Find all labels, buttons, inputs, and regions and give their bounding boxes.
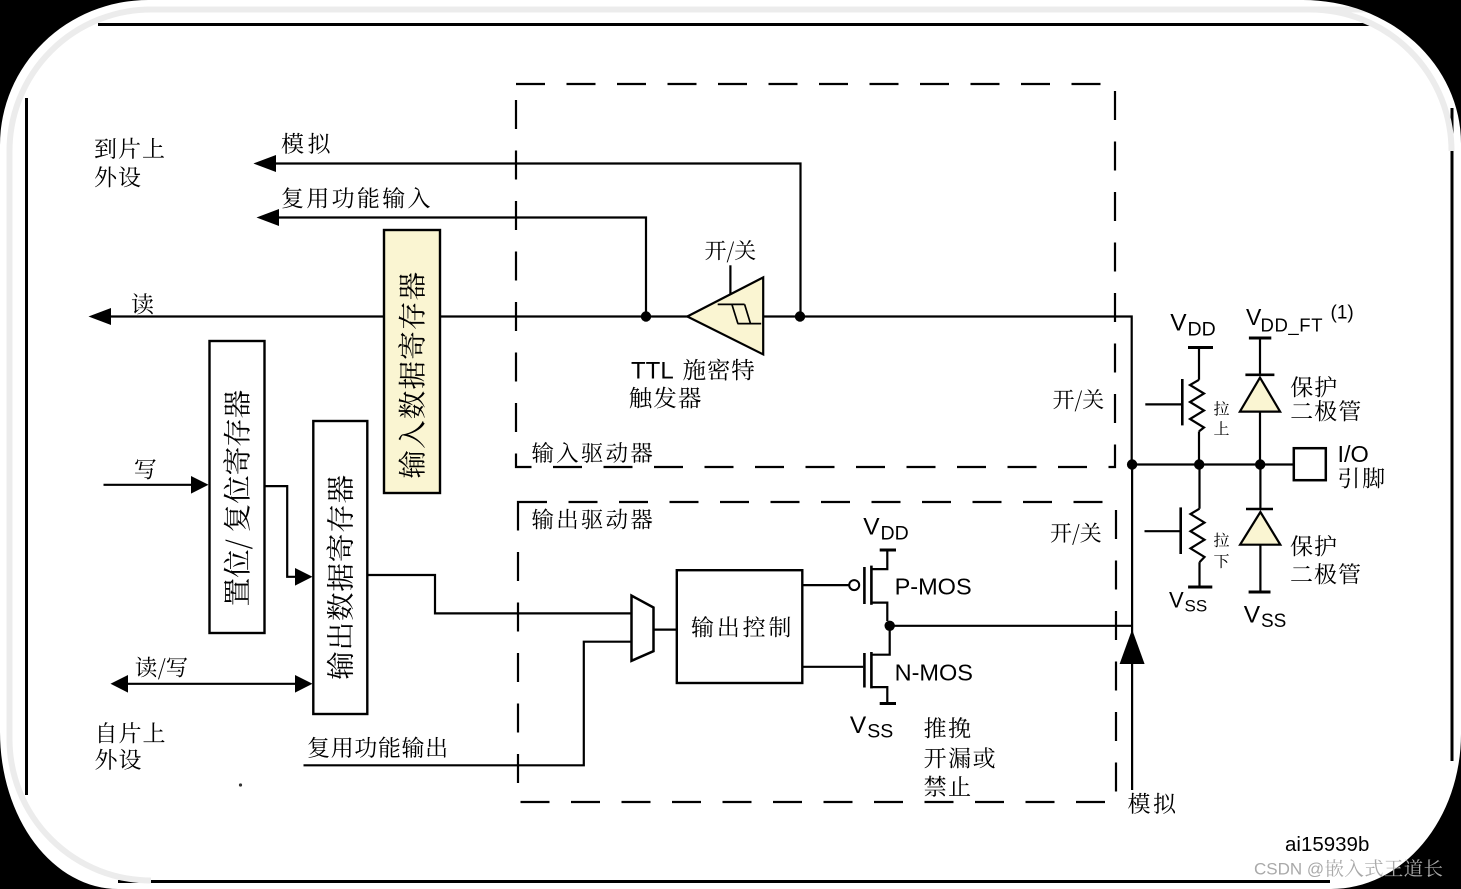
- wire: write input: [104, 484, 196, 486]
- arrowhead: write into bit set/reset register: [191, 476, 209, 494]
- svg-text:V: V: [863, 514, 880, 541]
- label: 模拟 (analog) bottom: [1128, 793, 1175, 814]
- label: 推挽 开漏或 禁止 (push-pull, open-drain or disabled): [924, 717, 970, 738]
- mux trapezoid selecting output data / AF output: [632, 596, 654, 661]
- resistor: pull-up with switch: [1188, 346, 1213, 349]
- wire: alternate function output net: [304, 642, 633, 766]
- node: push-pull output junction: [885, 621, 895, 631]
- op-amp style buffer: TTL Schmitt trigger: [687, 277, 763, 354]
- stray dot mark: [239, 783, 242, 786]
- wire: output data register to output mux: [366, 575, 632, 613]
- wire: alternate function input net: [265, 218, 646, 317]
- svg-text:(1): (1): [1331, 303, 1354, 324]
- label: 写 (write): [135, 459, 156, 479]
- label: 读 (read): [132, 293, 153, 314]
- svg-text:V: V: [1170, 310, 1187, 337]
- arrowhead: read/write (right, into output data register): [295, 675, 313, 693]
- watermark: [1254, 859, 1442, 878]
- label: 自片上外设 (from on-chip peripherals): [99, 722, 164, 743]
- svg-text:N-MOS: N-MOS: [895, 660, 973, 686]
- wire: read data line from I/O to read bus: [97, 317, 1132, 466]
- label: 拉上 (pull-up): [1214, 401, 1229, 416]
- transistor: P-MOS: [880, 549, 896, 552]
- svg-text:TTL: TTL: [631, 358, 674, 385]
- label: 开/关 (on/off) above trigger: [705, 240, 755, 262]
- node: analog line junction: [795, 311, 805, 321]
- arrowhead: analog (up): [1120, 630, 1145, 665]
- wire: output stage to I/O pin column: [890, 625, 1132, 627]
- svg-text:SS: SS: [1261, 611, 1286, 632]
- svg-text:I/O: I/O: [1338, 441, 1369, 467]
- label: 读/写 (read/write): [136, 657, 188, 680]
- svg-text:SS: SS: [867, 721, 893, 743]
- arrowhead: read/write (left): [111, 675, 129, 693]
- svg-text:V: V: [1244, 602, 1261, 629]
- svg-text:ai15939b: ai15939b: [1285, 833, 1369, 856]
- wire: analog input to on-chip peripherals net: [263, 164, 801, 317]
- svg-text:V: V: [1169, 588, 1184, 613]
- diode: protection diode to V_SS: [1259, 465, 1261, 509]
- hysteresis symbol inside trigger: [718, 304, 762, 323]
- label: 保护 二极管 (protection diode) top: [1291, 376, 1337, 397]
- label: 输入驱动器 (input driver): [532, 442, 652, 463]
- node: protection diode junction: [1255, 459, 1265, 469]
- svg-text:P-MOS: P-MOS: [895, 574, 972, 600]
- node: pull-up/pull-down junction: [1194, 459, 1204, 469]
- label: 拉下 (pull-down): [1214, 533, 1229, 548]
- wire: analog connection from I/O pin going down: [1131, 465, 1133, 790]
- output driver dashed boundary box: [518, 502, 1116, 802]
- node: analog column junction: [1127, 459, 1137, 469]
- block: bit set/reset register (置位/复位寄存器): [210, 341, 265, 633]
- wire: on/off control into trigger: [729, 265, 731, 295]
- svg-text:DD: DD: [1188, 319, 1216, 341]
- label: 复用功能输出 (alternate function output): [308, 736, 446, 757]
- label: 模拟 (analog) top: [282, 133, 330, 154]
- node: AF input junction: [641, 311, 651, 321]
- wire: I/O pin net: [1132, 463, 1294, 465]
- block: output data register (输出数据寄存器): [313, 421, 367, 714]
- diode: protection diode to V_DD_FT: [1249, 337, 1271, 340]
- arrowhead: AF input (left): [257, 209, 280, 226]
- label: 开/关 (on/off) input driver switch: [1053, 389, 1103, 411]
- arrowhead: into output data register: [295, 568, 313, 586]
- arrowhead: read (left): [89, 308, 112, 325]
- svg-text:DD_FT: DD_FT: [1261, 315, 1324, 337]
- pin: I/O pad square: [1294, 448, 1326, 480]
- block: output control (输出控制): [677, 570, 803, 683]
- input driver dashed boundary box: [516, 84, 1115, 467]
- arrowhead: analog to peripherals (left): [254, 155, 277, 172]
- block: input data register (输入数据寄存器), highlighted: [384, 230, 440, 493]
- label: 保护 二极管 (protection diode) bottom: [1291, 535, 1337, 556]
- svg-text:SS: SS: [1185, 597, 1208, 616]
- label: 复用功能输入 (alternate function input): [282, 187, 430, 208]
- label: 开/关 (on/off) output driver switch: [1051, 523, 1101, 545]
- svg-text:DD: DD: [881, 523, 909, 545]
- wire: read/write bidirectional bus: [125, 683, 298, 685]
- wire: mux to output control: [653, 628, 677, 630]
- svg-text:V: V: [850, 712, 867, 739]
- svg-text:CSDN @: CSDN @: [1254, 860, 1324, 879]
- wire: bit set/reset register to output data register: [265, 486, 298, 577]
- label: 到片上外设 (to on-chip peripherals): [95, 138, 164, 159]
- resistor: pull-down with switch: [1198, 465, 1200, 509]
- transistor: N-MOS: [872, 626, 889, 655]
- label: 输出驱动器 (output driver): [532, 508, 652, 529]
- black rounded corner masks: [0, 0, 149, 145]
